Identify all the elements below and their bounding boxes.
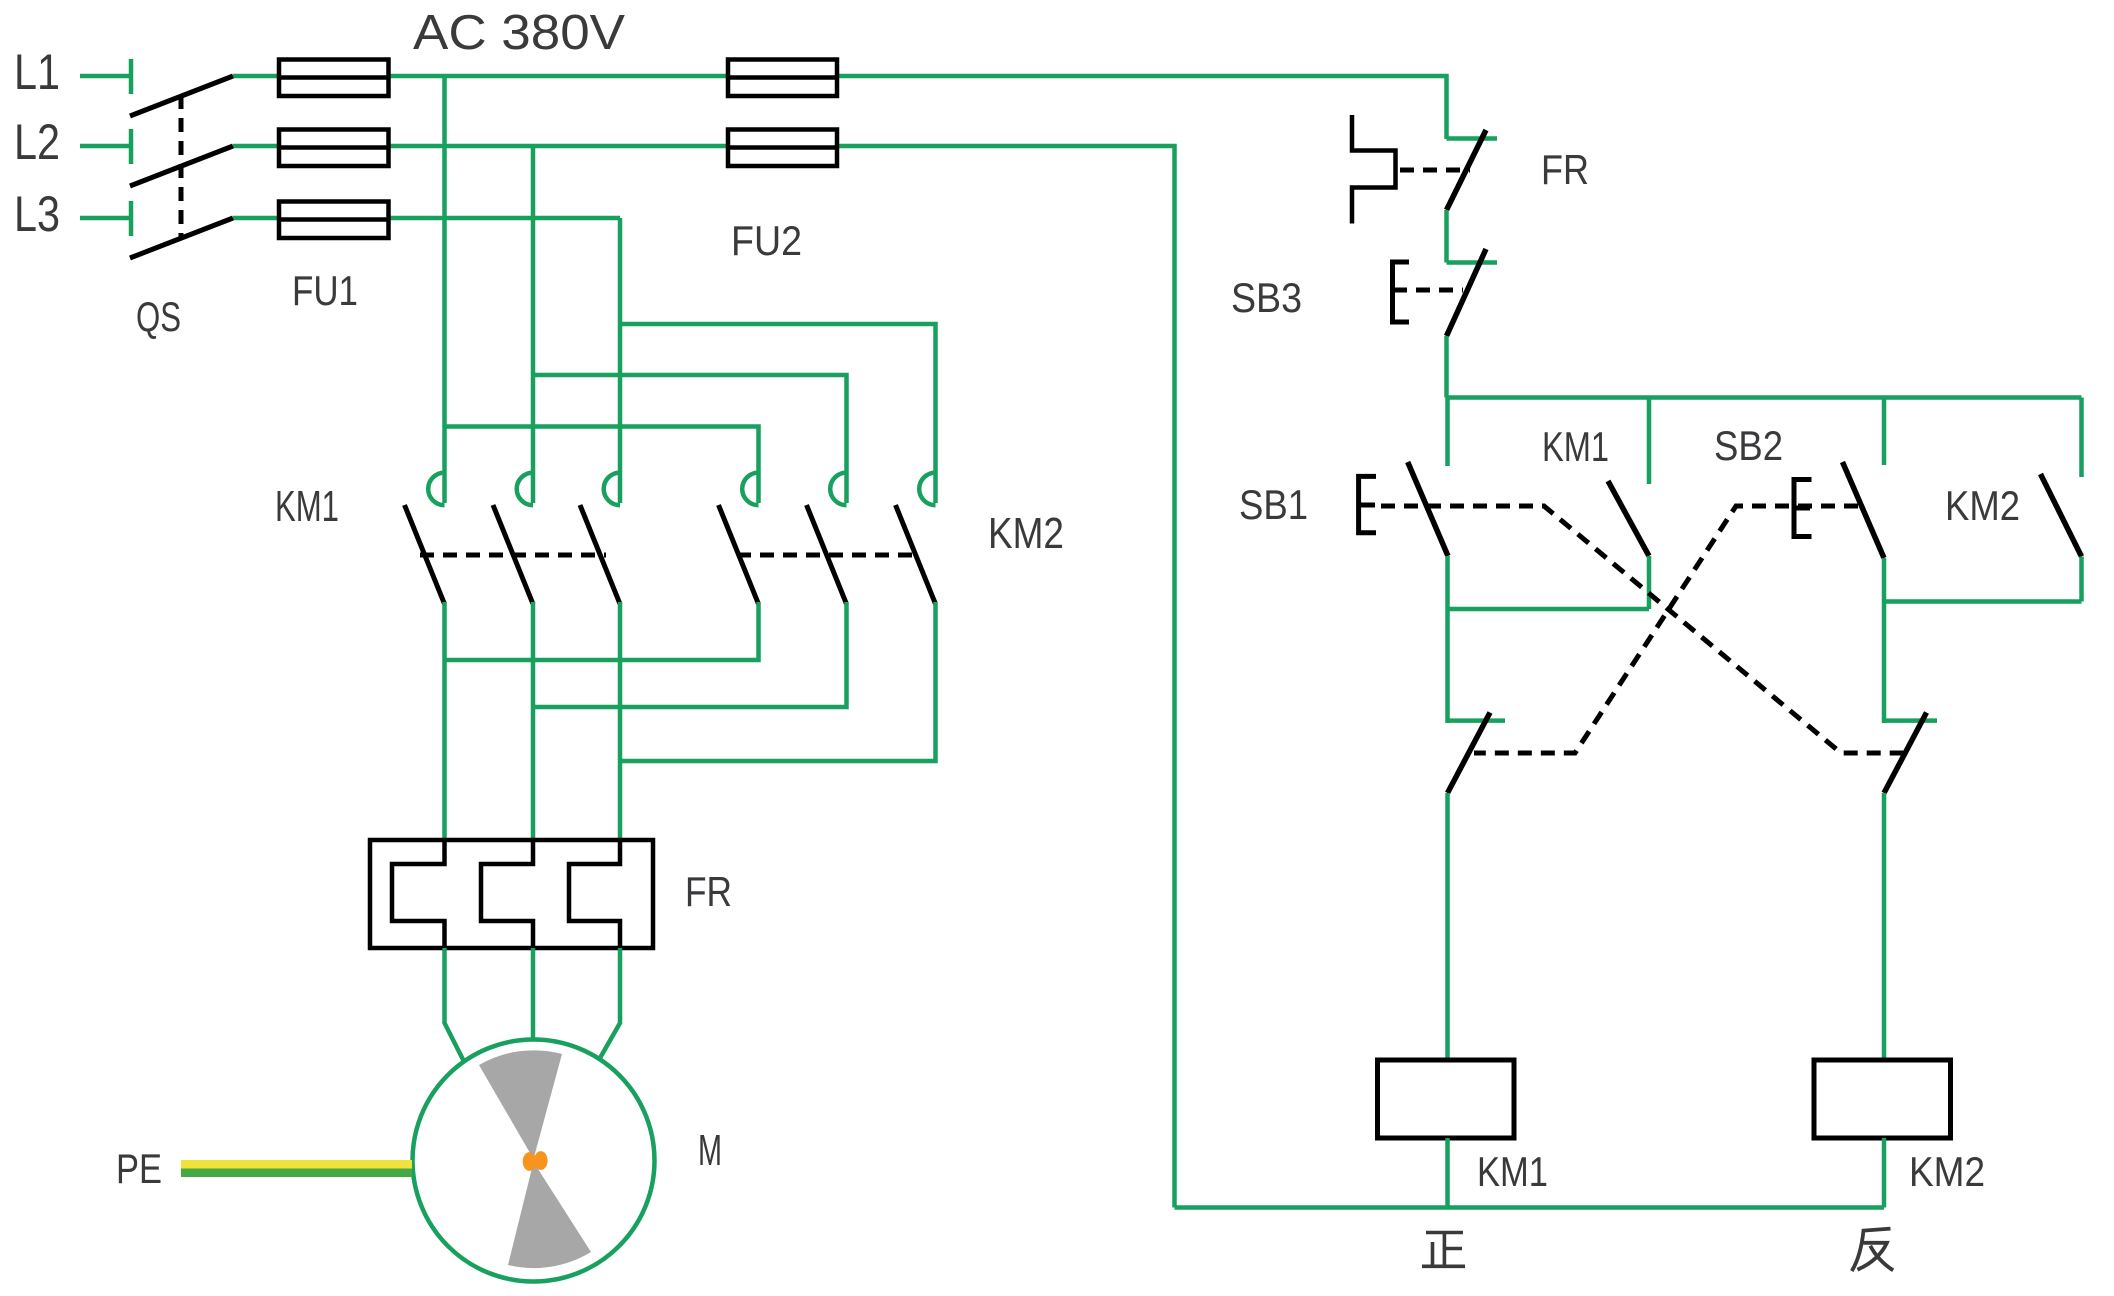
wire SB1 bottom bbox=[1445, 556, 1450, 723]
SB3 NC contact blade bbox=[1447, 249, 1487, 336]
wire tie KM2 pole 1 to phase A node bbox=[445, 602, 759, 660]
KM2 NC interlock contact blade bbox=[1448, 713, 1491, 794]
wire FR to motor W bbox=[600, 948, 620, 1058]
QS mechanical link (dashed) bbox=[179, 95, 184, 237]
wire phase A vertical to KM1 pole 1 bbox=[442, 76, 447, 503]
svg-text:FR: FR bbox=[685, 868, 732, 915]
KM1 auxiliary NO contact branch wire bbox=[1647, 398, 1652, 485]
start button SB1 branch wire top bbox=[1445, 398, 1450, 467]
self-latch tie (right) bbox=[1884, 599, 2082, 604]
SB2 pushbutton actuator (E) bbox=[1794, 480, 1812, 537]
svg-text:L3: L3 bbox=[14, 186, 60, 242]
FR heater element 2 bbox=[481, 840, 533, 948]
svg-text:L2: L2 bbox=[14, 114, 60, 170]
wire KM2 aux bottom bbox=[2079, 557, 2084, 602]
self-latch tie (left) bbox=[1448, 607, 1650, 612]
wire L2 bus to control-circuit left rail bbox=[233, 146, 1175, 1208]
KM2 NC interlock contact stub (in KM1 branch) bbox=[1448, 718, 1506, 723]
contactor coil KM1 bbox=[1378, 1060, 1515, 1138]
SB2 NO contact blade bbox=[1843, 462, 1885, 558]
svg-text:SB1: SB1 bbox=[1239, 481, 1308, 528]
wire tie KM2 pole 3 to phase C node bbox=[620, 602, 936, 761]
svg-text:PE: PE bbox=[116, 1145, 162, 1192]
wire KM1 pole 2 bottom to FR bbox=[531, 602, 536, 840]
svg-text:SB3: SB3 bbox=[1231, 274, 1302, 321]
svg-text:KM1: KM1 bbox=[1542, 423, 1609, 470]
control bus horizontal bbox=[1447, 395, 2082, 400]
wire SB3 to control bus bbox=[1444, 336, 1449, 398]
contactor coil KM2 bbox=[1814, 1060, 1951, 1138]
FR NC contact blade bbox=[1447, 130, 1487, 210]
motor hub (orange) bbox=[523, 1152, 537, 1171]
PE conductor green stripe bbox=[181, 1169, 412, 1178]
wire FR NC to SB3 bbox=[1444, 210, 1449, 263]
label 正 (forward) bbox=[1422, 1233, 1465, 1267]
wire FR to motor V bbox=[531, 948, 536, 1041]
wire FR to motor U bbox=[445, 948, 465, 1062]
disconnect switch QS blade 2 bbox=[130, 146, 233, 186]
SB1 NO contact blade bbox=[1408, 462, 1448, 556]
FR trip actuator symbol bbox=[1352, 115, 1396, 224]
wire L1 bus from QS to right corner bbox=[233, 76, 1447, 139]
contactor KM2 main contact pole 2 bbox=[807, 473, 847, 604]
wire KM2 coil bottom bbox=[1882, 1138, 1887, 1208]
wire L3 bus bbox=[233, 216, 620, 221]
contactor KM1 main contact pole 2 bbox=[493, 473, 533, 604]
wire to KM2 coil bbox=[1882, 793, 1887, 1060]
SB1 pushbutton actuator (E) bbox=[1359, 476, 1376, 532]
disconnect switch QS blade 3 bbox=[130, 218, 233, 258]
thermal relay FR NC contact: fixed stub bbox=[1447, 136, 1498, 141]
svg-text:KM2: KM2 bbox=[988, 509, 1064, 558]
wire tie KM2 pole 2 to phase B node bbox=[533, 602, 847, 707]
wire phase A branch to KM2 pole 1 bbox=[445, 427, 759, 504]
FR actuator link (dashed) bbox=[1400, 168, 1470, 173]
interlock dashed link SB2 to KM2-NC (path B) bbox=[1474, 506, 1858, 753]
disconnect switch QS blade 1 bbox=[130, 76, 233, 116]
svg-text:KM1: KM1 bbox=[1477, 1148, 1548, 1195]
svg-text:FR: FR bbox=[1541, 146, 1589, 193]
KM2 auxiliary NO contact branch wire bbox=[2079, 398, 2084, 478]
wire KM1 coil bottom bbox=[1445, 1138, 1450, 1208]
KM2 auxiliary NO contact blade bbox=[2041, 474, 2082, 557]
SB3 pushbutton actuator bbox=[1393, 262, 1410, 322]
fuse FU1 phase 2 bbox=[279, 130, 389, 167]
wire phase C vertical to KM1 pole 3 bbox=[618, 218, 623, 503]
wire L1 lead-in with terminal tick bbox=[80, 59, 131, 94]
control bottom bus bbox=[1175, 1205, 1885, 1210]
wire phase B vertical to KM1 pole 2 bbox=[531, 146, 536, 503]
thermal relay FR heater box bbox=[370, 840, 653, 948]
svg-text:L1: L1 bbox=[14, 44, 60, 100]
wire phase B branch to KM2 pole 2 bbox=[533, 375, 847, 503]
wire KM1 pole 1 bottom to FR bbox=[442, 602, 447, 840]
PE conductor yellow stripe bbox=[181, 1160, 412, 1169]
FR heater element 3 bbox=[569, 840, 620, 948]
KM1 auxiliary NO contact blade bbox=[1608, 481, 1649, 556]
contactor KM2 main contact pole 1 bbox=[719, 473, 759, 604]
svg-text:M: M bbox=[698, 1126, 722, 1175]
FR heater element 1 bbox=[392, 840, 445, 948]
motor rotor bottom blade (gray) bbox=[508, 1162, 591, 1268]
stop button SB3 fixed stub bbox=[1447, 260, 1498, 265]
svg-text:FU2: FU2 bbox=[731, 217, 802, 264]
wire phase C branch to KM2 pole 3 bbox=[620, 324, 936, 503]
wire KM1 pole 3 bottom to FR bbox=[618, 602, 623, 840]
svg-text:KM2: KM2 bbox=[1945, 482, 2020, 529]
KM2 main poles mechanical link (dashed) bbox=[737, 553, 918, 558]
wire to KM1 coil bbox=[1445, 793, 1450, 1060]
KM1 NC interlock contact stub (in KM2 branch) bbox=[1884, 718, 1937, 723]
svg-text:AC 380V: AC 380V bbox=[413, 6, 625, 60]
KM1 NC interlock contact blade bbox=[1884, 713, 1927, 794]
svg-text:KM1: KM1 bbox=[275, 482, 339, 531]
wire L2 lead-in with terminal tick bbox=[80, 129, 131, 164]
KM1 main poles mechanical link (dashed) bbox=[420, 553, 606, 558]
wire SB2 bottom bbox=[1882, 558, 1887, 723]
start button SB2 branch wire top bbox=[1882, 398, 1887, 466]
SB3 actuator link (dashed) bbox=[1393, 288, 1463, 293]
fuse FU1 phase 1 bbox=[279, 60, 389, 97]
svg-text:FU1: FU1 bbox=[292, 267, 358, 314]
contactor KM1 main contact pole 1 bbox=[405, 473, 445, 604]
svg-text:KM2: KM2 bbox=[1909, 1148, 1985, 1195]
svg-text:SB2: SB2 bbox=[1714, 422, 1783, 469]
contactor KM1 main contact pole 3 bbox=[580, 473, 620, 604]
svg-text:QS: QS bbox=[136, 293, 181, 340]
motor M circle bbox=[413, 1040, 655, 1282]
contactor KM2 main contact pole 3 bbox=[896, 473, 936, 604]
fuse FU1 phase 3 bbox=[279, 202, 389, 239]
fuse FU2 lower (control L2) bbox=[728, 130, 837, 167]
fuse FU2 upper (control L1) bbox=[728, 60, 837, 97]
interlock dashed link SB1 to KM1-NC (path A) bbox=[1381, 506, 1903, 753]
wire L3 lead-in with terminal tick bbox=[80, 201, 131, 236]
label 反 (reverse) bbox=[1852, 1229, 1893, 1271]
motor rotor top blade (gray) bbox=[479, 1050, 562, 1159]
wire KM1 aux bottom bbox=[1647, 556, 1652, 609]
